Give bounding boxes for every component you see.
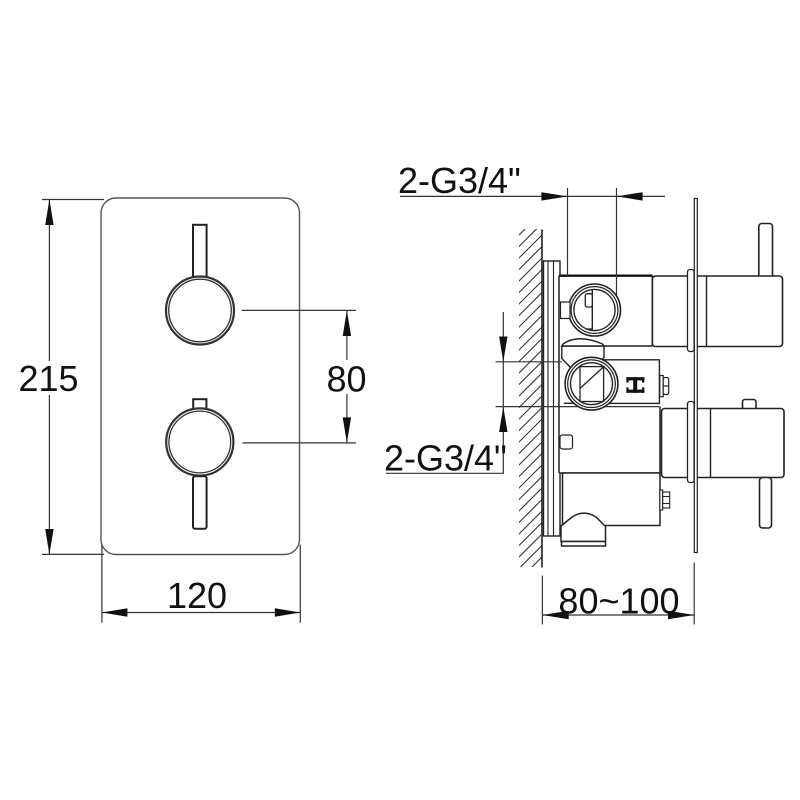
leader line knob1 to dim 80 (242, 309, 356, 311)
dimension 80 top arrow (343, 310, 351, 336)
valve body step edge (604, 345, 652, 347)
port extension line lower (496, 406, 660, 408)
valve body left edge (558, 275, 560, 473)
bottom dim left arrow (542, 611, 568, 619)
upper collar (688, 270, 695, 352)
knob 1 inner circle (169, 279, 232, 342)
valve body bottom edge (559, 472, 660, 474)
cartridge square (580, 367, 604, 402)
lower G3/4 leader vertical (502, 312, 504, 473)
dimension 120 left extension line (101, 545, 103, 623)
dimension 80 line lower segment (346, 394, 348, 443)
bottom dim left extension line (541, 576, 543, 625)
lower right fitting rib 2 (663, 503, 670, 505)
svg-text:215: 215 (18, 358, 78, 399)
body left notch upper (561, 302, 571, 319)
valve body lower block (563, 473, 661, 526)
svg-text:2-G3/4": 2-G3/4" (398, 160, 521, 201)
top dim extension line 2 (616, 188, 618, 297)
thermostat symbol serifs (626, 377, 628, 382)
thermostat cartridge box (604, 360, 660, 404)
lower right fitting cap (663, 492, 670, 508)
svg-text:2-G3/4": 2-G3/4" (384, 438, 507, 479)
top dim extension line 1 (567, 188, 569, 275)
thermostat circle ring (568, 360, 616, 408)
svg-text:80: 80 (326, 359, 366, 400)
valve body main block fill (559, 275, 660, 473)
knob 2 inner circle (169, 411, 231, 473)
knob 2 tab (193, 399, 206, 409)
lower housing seam (710, 409, 712, 478)
knob 2 outer circle (166, 408, 233, 475)
lower handle tab (743, 400, 757, 411)
dimension 215 line (48, 200, 50, 555)
dimension 120 line (102, 612, 300, 614)
right fitting middle cap (663, 378, 669, 395)
valve body lower right edge (659, 407, 661, 473)
thermostat circle outer (565, 357, 618, 410)
thermostat circle inner (571, 363, 613, 405)
bottom dimension line (542, 614, 694, 616)
wall surface line (541, 229, 543, 567)
knob 1 outer circle (166, 277, 234, 345)
svg-text:80~100: 80~100 (558, 581, 679, 622)
right fitting middle line (663, 385, 669, 387)
dimension 80 bottom arrow (343, 417, 351, 443)
mounting bracket plate (544, 261, 561, 536)
wall hatching (513, 206, 548, 586)
bottom dim right extension line (693, 563, 695, 625)
lower G3/4 up arrow (499, 407, 507, 432)
right fitting middle (660, 376, 663, 397)
upper cartridge housing (652, 276, 782, 347)
front plate (101, 198, 300, 555)
knob 2 stem (193, 476, 207, 529)
outlet port circle ring (571, 287, 618, 334)
outlet port circle outer (569, 284, 621, 336)
upper housing seam (706, 276, 708, 347)
port slot (585, 294, 592, 307)
body left notch lower (560, 435, 573, 449)
dimension 120 right extension line (299, 545, 301, 623)
inlet elbow (561, 513, 606, 541)
thermostat symbol stem (633, 377, 637, 393)
bonnet nut body (562, 346, 604, 368)
bottom dim right arrow (668, 611, 694, 619)
leader line knob2 to dim 80 (242, 442, 356, 444)
lower G3/4 leader underline (386, 472, 504, 474)
valve body top edge (559, 275, 652, 277)
outlet port circle inner (574, 289, 615, 330)
cartridge diagonal (581, 367, 604, 388)
thermostat symbol top bar (626, 377, 644, 380)
port bottom tick (586, 328, 593, 330)
dimension 120 right arrow (275, 608, 301, 616)
lower right fitting rib 1 (663, 496, 670, 498)
thermostat box bottom line (564, 402, 660, 404)
dimension 120 left arrow (102, 608, 128, 616)
lower right fitting (660, 490, 663, 510)
bonnet dome (562, 339, 604, 346)
bracket plate inner line 2 (553, 261, 555, 536)
top dimension line (400, 195, 665, 197)
valve body upper right edge (651, 275, 653, 346)
lower G3/4 down arrow (499, 337, 507, 362)
lower handle stem (760, 478, 772, 529)
trim plate (694, 199, 697, 553)
port chord line (591, 290, 593, 330)
dimension 215 text mask (19, 361, 79, 395)
thermostat symbol bottom bar (626, 390, 644, 393)
port extension line upper (496, 361, 562, 363)
knob 1 stem (193, 225, 207, 277)
bracket plate inner line 1 (547, 261, 549, 536)
top dim right-pointing arrow (541, 192, 567, 200)
dimension 215 top extension line (42, 199, 104, 201)
lower collar (688, 402, 695, 483)
dimension 80 line upper segment (346, 310, 348, 360)
lower cartridge housing (662, 409, 785, 478)
dimension 215 top arrow (45, 200, 53, 226)
top dim left-pointing arrow (617, 192, 643, 200)
upper handle stem (759, 224, 773, 279)
dimension 215 bottom extension line (42, 553, 104, 555)
svg-text:120: 120 (167, 575, 227, 616)
dimension 215 bottom arrow (45, 529, 53, 554)
inlet elbow flange (562, 542, 606, 547)
